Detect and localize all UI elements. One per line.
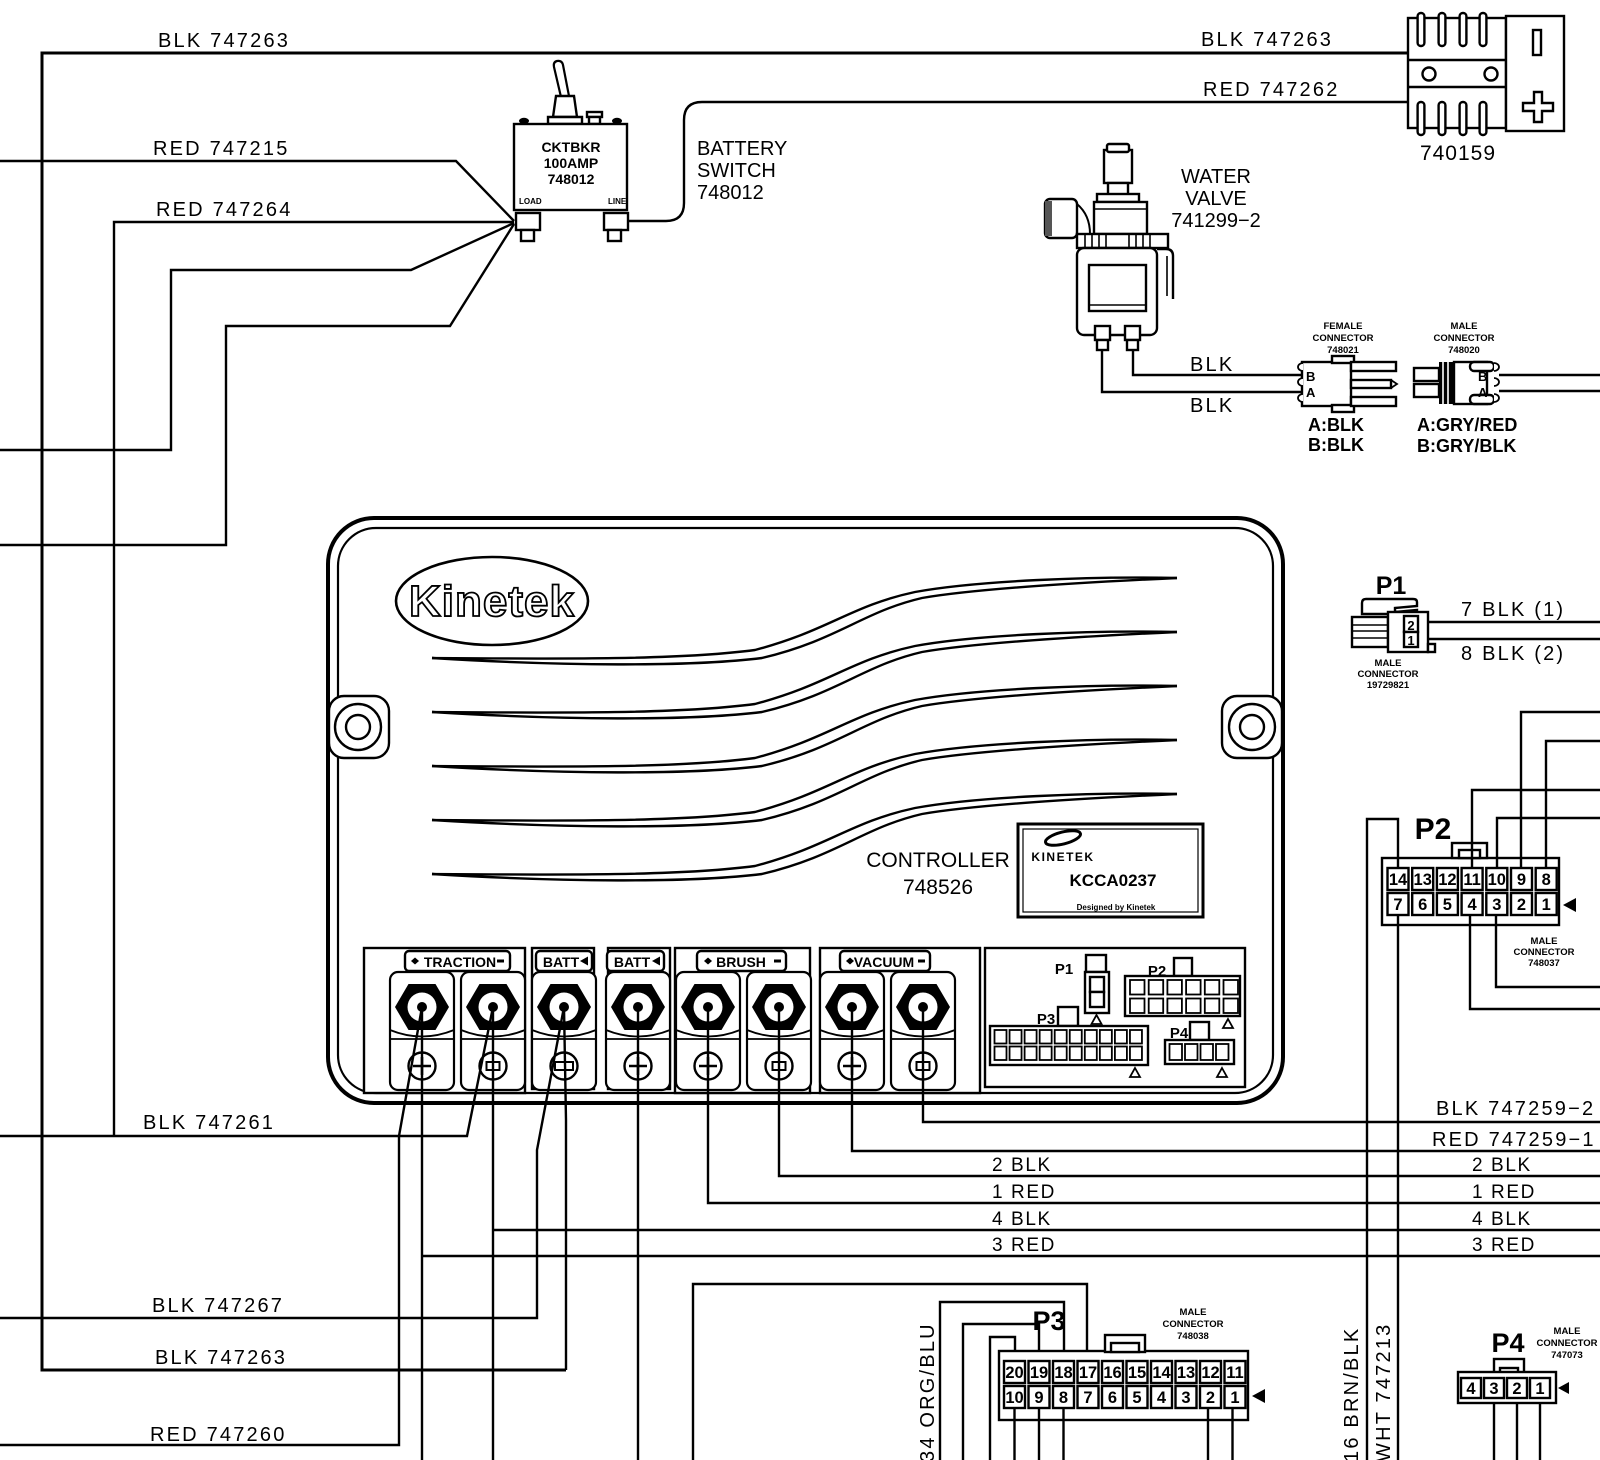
- svg-text:7: 7: [1393, 896, 1402, 914]
- connector P2 (male connector 748037): [1382, 813, 1576, 969]
- svg-text:748038: 748038: [1177, 1331, 1209, 1342]
- svg-text:3 RED: 3 RED: [1472, 1235, 1536, 1256]
- svg-text:20: 20: [1005, 1364, 1023, 1382]
- svg-text:13: 13: [1177, 1364, 1195, 1382]
- svg-text:2: 2: [1512, 1380, 1521, 1398]
- BATT2 group box: [608, 948, 670, 1089]
- svg-text:CONNECTOR: CONNECTOR: [1513, 947, 1574, 958]
- svg-text:7 BLK (1): 7 BLK (1): [1461, 599, 1565, 621]
- svg-text:MALE: MALE: [1451, 321, 1478, 332]
- terminal T1: [390, 972, 454, 1090]
- svg-text:5: 5: [1132, 1389, 1141, 1407]
- svg-text:13: 13: [1414, 871, 1432, 889]
- svg-text:3: 3: [1492, 896, 1501, 914]
- svg-text:MALE: MALE: [1554, 1326, 1581, 1337]
- svg-text:A: A: [1306, 385, 1316, 400]
- KCCA0237 nameplate: [1018, 824, 1203, 917]
- svg-text:2: 2: [1206, 1389, 1215, 1407]
- svg-text:WATER: WATER: [1181, 166, 1251, 188]
- svg-text:CONNECTOR: CONNECTOR: [1536, 1338, 1597, 1349]
- svg-text:P3: P3: [1032, 1306, 1065, 1336]
- svg-text:748021: 748021: [1327, 345, 1359, 356]
- connector P1 (male connector 19729821): [1352, 572, 1435, 691]
- svg-text:5: 5: [1443, 896, 1452, 914]
- svg-text:RED 747259−1: RED 747259−1: [1432, 1129, 1596, 1151]
- wires below P4 pins 3 2 1: [1494, 1403, 1540, 1460]
- svg-text:CONNECTOR: CONNECTOR: [1312, 333, 1373, 344]
- wire from LOAD to left edge (upper): [0, 223, 514, 450]
- internal connector icon P1: [1055, 955, 1109, 1024]
- label 34 ORG/BLU (rotated): [917, 1322, 939, 1460]
- wire P2 pin 11: [1472, 790, 1600, 868]
- wire BLK from valve right terminal: [1133, 350, 1302, 376]
- svg-text:6: 6: [1108, 1389, 1117, 1407]
- wire 16 BRN/BLK from P2 pin 14: [1341, 819, 1398, 1460]
- controller 748526 outer shell: [328, 518, 1283, 1103]
- svg-text:LOAD: LOAD: [519, 197, 542, 206]
- BRUSH label pill: [697, 951, 786, 971]
- label WATER VALVE 741299-2: [1171, 166, 1261, 232]
- svg-text:A:BLK: A:BLK: [1308, 415, 1364, 435]
- svg-text:P1: P1: [1055, 961, 1073, 978]
- svg-text:34 ORG/BLU: 34 ORG/BLU: [917, 1322, 939, 1460]
- svg-text:747073: 747073: [1551, 1350, 1583, 1361]
- wires out of male connector: [1499, 375, 1600, 391]
- svg-text:B:GRY/BLK: B:GRY/BLK: [1417, 436, 1516, 456]
- wire WHT 747213 from P2 pin 7: [1373, 915, 1398, 1460]
- svg-text:BRUSH: BRUSH: [716, 954, 766, 970]
- wire BLK 747267 (terminal T3 left): [0, 1007, 564, 1318]
- svg-text:Designed by Kinetek: Designed by Kinetek: [1077, 903, 1156, 912]
- svg-text:FEMALE: FEMALE: [1323, 321, 1362, 332]
- controller cover groove 2: [432, 632, 1177, 719]
- label BATTERY SWITCH 748012: [697, 138, 787, 204]
- svg-text:BATT: BATT: [614, 954, 651, 970]
- terminal T8: [891, 972, 955, 1090]
- wire 4 BLK (terminal T2 right): [493, 1007, 1600, 1460]
- bracket wire to P3 pin 19: [963, 1324, 1039, 1460]
- svg-text:BLK 747263: BLK 747263: [1201, 29, 1333, 51]
- controller cover groove 5: [432, 794, 1177, 881]
- svg-text:19: 19: [1030, 1364, 1048, 1382]
- svg-text:8 BLK (2): 8 BLK (2): [1461, 643, 1565, 665]
- label A:BLK B:BLK: [1308, 415, 1364, 455]
- svg-text:BLK: BLK: [1190, 395, 1234, 417]
- svg-text:1 RED: 1 RED: [992, 1182, 1056, 1203]
- VACUUM group box: [820, 948, 980, 1093]
- circuit breaker body CKTBKR 100AMP 748012: [514, 124, 627, 210]
- svg-text:10: 10: [1005, 1389, 1023, 1407]
- svg-text:12: 12: [1201, 1364, 1219, 1382]
- svg-text:7: 7: [1083, 1389, 1092, 1407]
- connector P4 (male connector 747073): [1458, 1326, 1598, 1403]
- circuit breaker rivet: [587, 112, 602, 124]
- svg-text:10: 10: [1488, 871, 1506, 889]
- svg-text:748526: 748526: [903, 876, 973, 899]
- BATT2 label pill: [607, 951, 664, 971]
- TRACTION label pill: [405, 951, 510, 971]
- svg-text:P4: P4: [1491, 1328, 1524, 1358]
- svg-text:100AMP: 100AMP: [544, 155, 598, 171]
- svg-text:VACUUM: VACUUM: [854, 954, 914, 970]
- svg-text:SWITCH: SWITCH: [697, 160, 776, 182]
- svg-text:1: 1: [1535, 1380, 1544, 1398]
- svg-text:1 RED: 1 RED: [1472, 1182, 1536, 1203]
- P-connector area box: [985, 948, 1245, 1087]
- svg-text:748037: 748037: [1528, 958, 1560, 969]
- svg-text:CONNECTOR: CONNECTOR: [1162, 1319, 1223, 1330]
- wire BLK 747259-2 (terminal T8): [923, 1007, 1600, 1122]
- svg-text:11: 11: [1226, 1364, 1243, 1382]
- circuit breaker LINE terminal: [604, 213, 628, 241]
- terminal T4: [606, 972, 670, 1090]
- svg-text:Kinetek: Kinetek: [409, 577, 575, 626]
- wire 2 BLK (terminal T6): [779, 1007, 1600, 1176]
- controller left mounting ear: [329, 696, 389, 758]
- bracket wire to P3 pin 18: [940, 1302, 1064, 1460]
- terminal T3: [532, 972, 596, 1090]
- svg-text:8: 8: [1059, 1389, 1068, 1407]
- svg-text:A:GRY/RED: A:GRY/RED: [1417, 415, 1517, 435]
- wire P2 pin 9: [1521, 712, 1600, 868]
- svg-text:BLK 747263: BLK 747263: [155, 1347, 287, 1369]
- label CONTROLLER 748526: [866, 849, 1010, 899]
- wire RED 747259-1 (terminal T7): [852, 1007, 1600, 1151]
- terminal T2: [461, 972, 525, 1090]
- wire P2 pin 10: [1497, 818, 1600, 868]
- BATT1 group box: [532, 948, 594, 1089]
- label FEMALE CONNECTOR 748021: [1312, 321, 1373, 356]
- svg-text:4: 4: [1157, 1389, 1167, 1407]
- wire BLK 747263 lower (terminal T3 right): [155, 1007, 566, 1370]
- terminal T5: [676, 972, 740, 1090]
- svg-text:B: B: [1306, 369, 1315, 384]
- wire from LOAD to left edge (lower): [0, 224, 514, 545]
- svg-text:P1: P1: [1376, 572, 1407, 600]
- controller cover groove 3: [432, 686, 1177, 773]
- internal connector icon P3: [990, 1007, 1148, 1077]
- circuit breaker LOAD terminal: [516, 213, 540, 241]
- controller right mounting ear: [1222, 696, 1282, 758]
- svg-text:CONNECTOR: CONNECTOR: [1357, 669, 1418, 680]
- svg-text:CONNECTOR: CONNECTOR: [1433, 333, 1494, 344]
- circuit breaker top mounting dots: [519, 118, 622, 124]
- internal connector icon P2: [1125, 958, 1240, 1028]
- svg-text:1: 1: [1230, 1389, 1239, 1407]
- circuit breaker toggle bushing: [553, 96, 577, 117]
- svg-text:B: B: [1478, 369, 1487, 384]
- svg-text:14: 14: [1152, 1364, 1171, 1382]
- svg-text:15: 15: [1128, 1364, 1146, 1382]
- svg-text:P2: P2: [1415, 813, 1452, 846]
- VACUUM label pill: [840, 951, 930, 971]
- svg-text:MALE: MALE: [1531, 936, 1558, 947]
- svg-text:17: 17: [1079, 1364, 1097, 1382]
- svg-text:16: 16: [1103, 1364, 1121, 1382]
- svg-text:2: 2: [1517, 896, 1526, 914]
- wire BLK from valve left terminal: [1102, 350, 1302, 417]
- wire RED 747215: [0, 138, 514, 221]
- svg-text:1: 1: [1542, 896, 1551, 914]
- terminal T6: [747, 972, 811, 1090]
- svg-text:740159: 740159: [1420, 142, 1496, 165]
- svg-text:2 BLK: 2 BLK: [1472, 1155, 1532, 1176]
- connector P3 (male connector 748038): [999, 1306, 1265, 1420]
- svg-text:9: 9: [1517, 871, 1526, 889]
- svg-text:WHT 747213: WHT 747213: [1373, 1323, 1395, 1460]
- BRUSH group box: [675, 948, 810, 1093]
- svg-text:RED 747262: RED 747262: [1203, 79, 1340, 101]
- wire from terminal T4 down: [637, 1007, 639, 1460]
- svg-text:A: A: [1478, 385, 1488, 400]
- svg-text:BLK: BLK: [1190, 354, 1234, 376]
- wire P2 pin 3: [1496, 915, 1600, 987]
- svg-text:3: 3: [1181, 1389, 1190, 1407]
- female connector 748021: [1298, 356, 1397, 412]
- svg-text:9: 9: [1034, 1389, 1043, 1407]
- wire RED 747262 (from breaker LINE terminal to battery connector): [627, 79, 1408, 221]
- svg-text:KCCA0237: KCCA0237: [1070, 871, 1157, 890]
- svg-text:CONTROLLER: CONTROLLER: [866, 849, 1010, 872]
- svg-text:3 RED: 3 RED: [992, 1235, 1056, 1256]
- svg-text:BLK 747267: BLK 747267: [152, 1295, 284, 1317]
- svg-text:BLK 747261: BLK 747261: [143, 1112, 275, 1134]
- svg-text:MALE: MALE: [1375, 658, 1402, 669]
- wire P2 pin 8: [1546, 741, 1600, 868]
- wire BLK 747261 (terminal T2 left): [0, 1007, 493, 1136]
- svg-text:RED 747215: RED 747215: [153, 138, 290, 160]
- svg-text:748012: 748012: [697, 182, 764, 204]
- internal connector icon P4: [1165, 1022, 1234, 1077]
- svg-text:2: 2: [1407, 618, 1414, 633]
- wires below P3 pins 10 9 8: [1015, 1408, 1064, 1460]
- battery connector 740159: [1408, 13, 1564, 165]
- svg-text:3: 3: [1489, 1380, 1498, 1398]
- wire 3 RED (terminal T1 right): [422, 1007, 1600, 1460]
- harness box to P3 pin 17: [693, 1284, 1087, 1460]
- svg-text:6: 6: [1418, 896, 1427, 914]
- label A:GRY/RED B:GRY/BLK: [1417, 415, 1517, 456]
- svg-text:BATTERY: BATTERY: [697, 138, 787, 160]
- svg-text:2 BLK: 2 BLK: [992, 1155, 1052, 1176]
- wire P2 pin 4: [1470, 915, 1600, 1009]
- svg-text:BLK 747263: BLK 747263: [158, 30, 290, 52]
- wire 1 RED (terminal T5): [708, 1007, 1600, 1203]
- svg-text:4: 4: [1468, 896, 1478, 914]
- terminal T7: [820, 972, 884, 1090]
- label BLK 747263 (top right): [1201, 29, 1333, 51]
- svg-text:4 BLK: 4 BLK: [992, 1209, 1052, 1230]
- svg-text:4: 4: [1466, 1380, 1476, 1398]
- svg-text:741299−2: 741299−2: [1171, 210, 1261, 232]
- svg-text:RED 747260: RED 747260: [150, 1424, 287, 1446]
- svg-text:BLK 747259−2: BLK 747259−2: [1436, 1098, 1595, 1120]
- svg-text:19729821: 19729821: [1367, 680, 1410, 691]
- wires below P3 pins 2 1: [1208, 1408, 1233, 1460]
- svg-text:VALVE: VALVE: [1185, 188, 1247, 210]
- TRACTION group box: [364, 948, 525, 1093]
- svg-text:12: 12: [1438, 871, 1456, 889]
- svg-text:4 BLK: 4 BLK: [1472, 1209, 1532, 1230]
- svg-text:14: 14: [1389, 871, 1408, 889]
- wire RED 747260 (terminal T1 left): [0, 1007, 422, 1446]
- label MALE CONNECTOR 748020: [1433, 321, 1494, 356]
- svg-text:KINETEK: KINETEK: [1031, 850, 1094, 864]
- controller cover groove 4: [432, 740, 1177, 827]
- wire 8 BLK (2): [1428, 639, 1600, 665]
- svg-text:CKTBKR: CKTBKR: [541, 139, 600, 155]
- svg-text:16 BRN/BLK: 16 BRN/BLK: [1341, 1327, 1363, 1460]
- svg-text:LINE: LINE: [608, 197, 627, 206]
- svg-text:748012: 748012: [548, 171, 595, 187]
- svg-text:11: 11: [1463, 871, 1480, 889]
- wire RED 747264: [114, 199, 514, 1136]
- wire 7 BLK (1): [1428, 599, 1600, 622]
- svg-text:18: 18: [1054, 1364, 1072, 1382]
- water valve 741299-2: [1045, 144, 1173, 350]
- svg-text:BATT: BATT: [543, 954, 580, 970]
- wire BLK 747263 (top run from battery connector to left side loop): [42, 30, 1408, 1370]
- BATT1 label pill: [536, 951, 592, 971]
- svg-text:RED 747264: RED 747264: [156, 199, 293, 221]
- Kinetek logo: [396, 557, 588, 645]
- svg-text:8: 8: [1542, 871, 1551, 889]
- bracket wire to P3 pin 20: [990, 1337, 1015, 1460]
- male connector 748020: [1414, 362, 1499, 404]
- svg-text:1: 1: [1407, 633, 1414, 648]
- circuit breaker CB 748012 toggle lever: [548, 61, 582, 124]
- controller cover groove 1: [432, 578, 1177, 665]
- svg-text:748020: 748020: [1448, 345, 1480, 356]
- svg-text:MALE: MALE: [1180, 1307, 1207, 1318]
- svg-text:B:BLK: B:BLK: [1308, 435, 1364, 455]
- svg-text:TRACTION: TRACTION: [424, 954, 496, 970]
